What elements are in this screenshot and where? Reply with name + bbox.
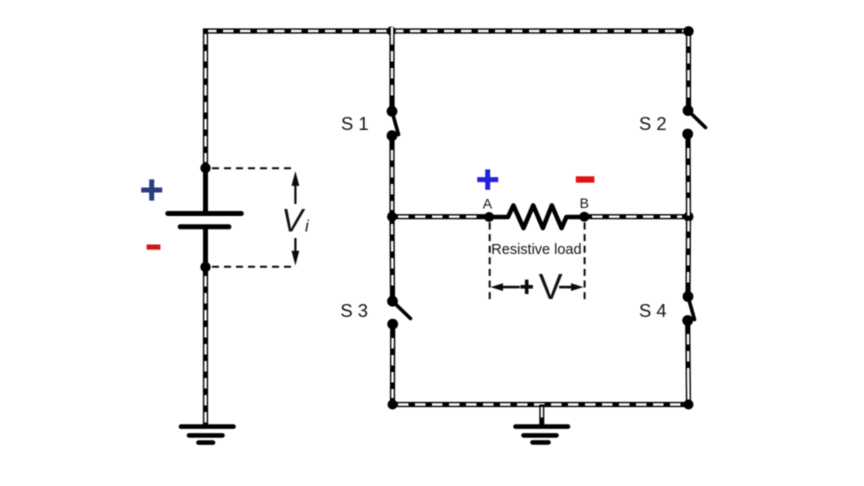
wire ground stem middle: [539, 405, 544, 426]
label Vi: [282, 203, 311, 239]
wire top rail: [203, 28, 690, 33]
ground middle: [516, 427, 569, 443]
svg-text:i: i: [305, 217, 310, 236]
dashed dimension line bottom of Vi: [212, 266, 294, 268]
svg-text:S 4: S 4: [639, 300, 667, 321]
wire S2 to middle rail: [685, 134, 691, 217]
ground left: [181, 427, 234, 443]
svg-text:V: V: [282, 203, 306, 239]
svg-text:Resistive load: Resistive load: [491, 242, 581, 258]
switch S1: [387, 106, 399, 141]
wire S4 column upper: [685, 217, 691, 293]
wire bottom rail: [393, 402, 689, 407]
node top right corner: [683, 26, 693, 36]
load plus label: [477, 169, 498, 189]
wire left battery column lower: [203, 267, 208, 426]
node top rail junction: [387, 26, 396, 35]
svg-text:S 1: S 1: [341, 113, 369, 134]
svg-text:V: V: [539, 266, 563, 307]
wire S1 column upper: [389, 27, 394, 108]
node middle rail left junction: [387, 212, 397, 222]
svg-text:A: A: [483, 196, 493, 212]
wire middle rail left segment: [392, 214, 489, 219]
node bottom left corner: [388, 400, 398, 410]
Vi dimension arrow: [292, 171, 300, 265]
battery Vi: [168, 163, 242, 272]
dashed line below A: [489, 223, 491, 301]
wire S3 column upper: [389, 217, 395, 298]
dashed line below B: [584, 223, 586, 301]
wire S4 to bottom rail: [685, 321, 691, 405]
node A: [484, 212, 494, 222]
node B: [579, 212, 589, 222]
load minus label: [576, 176, 595, 182]
svg-text:S 2: S 2: [639, 113, 667, 134]
dimension arrow right of +V: [559, 283, 583, 291]
switch S2: [682, 105, 705, 139]
battery minus label: [147, 245, 161, 250]
wire S1 to middle rail: [389, 136, 394, 217]
battery plus label: [141, 179, 162, 200]
node bottom right corner: [684, 400, 694, 410]
switch S3: [387, 296, 410, 330]
wire S3 to bottom rail: [390, 324, 395, 404]
wire left battery column upper: [203, 29, 208, 171]
label + V: [521, 266, 563, 307]
svg-text:S 3: S 3: [340, 300, 368, 321]
node middle rail right junction: [684, 212, 694, 222]
wire middle rail right segment: [584, 214, 688, 219]
dashed dimension line top of Vi: [212, 167, 294, 169]
switch S4: [682, 291, 694, 326]
svg-text:B: B: [580, 195, 589, 211]
wire S2 column upper: [686, 31, 691, 107]
dimension arrow left of +V: [490, 283, 519, 291]
resistor load: [489, 205, 584, 228]
